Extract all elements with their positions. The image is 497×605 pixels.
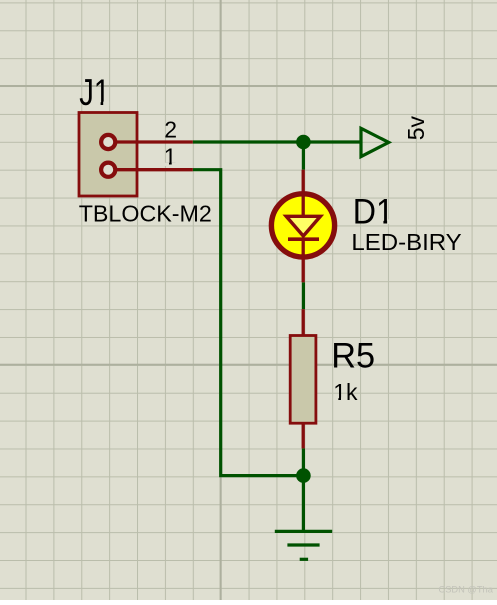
svg-text:TBLOCK-M2: TBLOCK-M2 [79, 201, 212, 227]
svg-text:LED-BIRY: LED-BIRY [351, 230, 462, 255]
svg-text:J1: J1 [79, 73, 110, 114]
svg-text:D1: D1 [353, 193, 394, 232]
svg-text:CSDN @Tha: CSDN @Tha [439, 584, 494, 594]
svg-text:R5: R5 [331, 337, 375, 375]
svg-text:2: 2 [164, 117, 177, 143]
svg-text:5v: 5v [403, 116, 429, 141]
